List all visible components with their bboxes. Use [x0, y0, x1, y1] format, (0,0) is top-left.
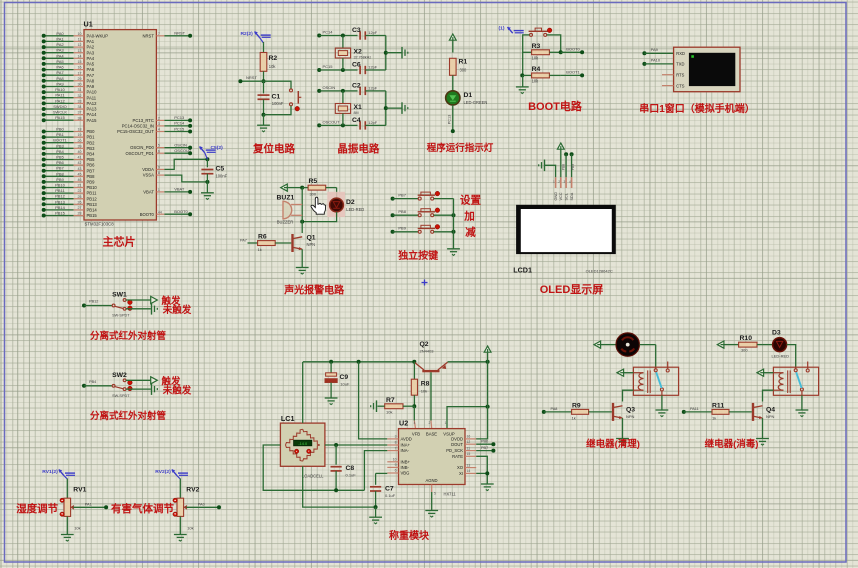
MCU pin PA5 (15): [42, 59, 95, 67]
LED D3 red: [772, 330, 790, 359]
MCU pin PA7 (17): [42, 70, 95, 78]
svg-text:NPN: NPN: [766, 414, 775, 419]
svg-text:PB15: PB15: [55, 211, 66, 216]
svg-text:湿度调节: 湿度调节: [16, 502, 58, 515]
power arrow D1: [449, 34, 456, 40]
svg-text:LCD1: LCD1: [513, 266, 532, 275]
label 称重模块: [389, 529, 430, 542]
svg-text:10: 10: [78, 32, 82, 36]
MCU pin PB1 (19): [42, 132, 95, 140]
wire X2 right rail: [384, 36, 402, 71]
probe (1): [499, 26, 524, 34]
wire bus to AVDD: [359, 362, 388, 439]
wire PD_SCK to PB7: [476, 446, 495, 453]
svg-text:VSSA: VSSA: [143, 173, 154, 178]
svg-text:U2: U2: [399, 419, 408, 428]
label 分离式红外对射管 1: [90, 330, 167, 342]
svg-text:11: 11: [467, 446, 471, 450]
svg-text:主芯片: 主芯片: [103, 235, 136, 249]
svg-text:PA8: PA8: [87, 78, 95, 83]
wire DOUT to PB6: [476, 440, 495, 447]
MCU pin VBAT (1): [143, 187, 192, 195]
node C5 top: [205, 157, 209, 167]
svg-text:12pF: 12pF: [368, 30, 377, 35]
OLED LCD1 module: [516, 205, 616, 254]
svg-text:BASE: BASE: [426, 432, 437, 437]
svg-text:8: 8: [158, 171, 160, 175]
svg-text:43: 43: [78, 167, 82, 171]
svg-text:AVDD: AVDD: [401, 437, 412, 442]
label BOOT电路: [528, 99, 583, 113]
svg-text:RV1(2): RV1(2): [42, 469, 58, 475]
svg-text:NRST: NRST: [246, 75, 257, 80]
label 设置: [460, 194, 481, 207]
svg-text:16: 16: [467, 435, 471, 439]
svg-text:D2: D2: [346, 199, 355, 206]
svg-text:DVDD: DVDD: [451, 437, 463, 442]
svg-text:21: 21: [78, 184, 82, 188]
svg-text:PB2: PB2: [87, 140, 96, 145]
svg-text:12: 12: [467, 440, 471, 444]
svg-text:C6: C6: [352, 62, 361, 69]
wire D3 to relay contact: [787, 345, 796, 368]
svg-text:10k: 10k: [532, 56, 540, 61]
wire Q1 emitter to ground: [301, 249, 303, 267]
resistor R10: [724, 335, 773, 353]
svg-text:PA5: PA5: [56, 59, 64, 64]
resistor R11: [682, 403, 752, 421]
wire crystal X1 nets: [317, 85, 357, 128]
probe R2(2): [241, 31, 271, 43]
label LCD1: [513, 266, 532, 275]
svg-text:PB15: PB15: [87, 213, 98, 218]
svg-text:LED-GREEN: LED-GREEN: [464, 100, 488, 105]
svg-text:R1: R1: [459, 59, 468, 66]
wire R5 to D2: [336, 188, 338, 199]
svg-text:未触发: 未触发: [162, 304, 192, 316]
virtual terminal serial window: [662, 47, 740, 91]
svg-text:PC14-OSC32_IN: PC14-OSC32_IN: [122, 124, 154, 129]
ground R7 side: [371, 400, 377, 412]
svg-text:R2(2): R2(2): [241, 31, 254, 37]
svg-text:18: 18: [78, 128, 82, 132]
MCU pin PA12 (33): [42, 98, 97, 106]
node PC13 end: [451, 129, 455, 133]
svg-text:Q1: Q1: [307, 235, 316, 242]
svg-text:PA1: PA1: [87, 39, 95, 44]
ground OLED GND pin: [539, 160, 545, 172]
svg-text:PC14: PC14: [174, 121, 185, 126]
capacitor C8: [331, 445, 357, 490]
svg-text:44: 44: [158, 210, 162, 214]
svg-text:14: 14: [78, 54, 82, 58]
node OLED SDA: [570, 152, 575, 177]
svg-text:LED-RED: LED-RED: [772, 354, 790, 359]
svg-text:PC15-OSC32_OUT: PC15-OSC32_OUT: [117, 129, 154, 134]
svg-text:继电器(清理): 继电器(清理): [586, 438, 640, 450]
resistor R9: [542, 403, 612, 421]
ground reset: [257, 115, 270, 132]
MCU pin PB8 (45): [42, 171, 95, 179]
svg-text:声光报警电路: 声光报警电路: [283, 284, 345, 297]
svg-text:SW2: SW2: [112, 372, 127, 379]
svg-text:VCC: VCC: [559, 192, 563, 200]
button key PB8: [391, 208, 456, 217]
svg-text:PA10: PA10: [55, 87, 65, 92]
svg-text:SDA: SDA: [570, 192, 574, 200]
crystal X1: [335, 91, 362, 126]
svg-text:VDDA: VDDA: [142, 167, 154, 172]
capacitor C1: [258, 81, 284, 115]
svg-text:RXD: RXD: [676, 51, 685, 56]
svg-text:19: 19: [78, 133, 82, 137]
power arrow HX711: [484, 346, 491, 352]
svg-text:10uF: 10uF: [340, 382, 350, 387]
wire probe to R2: [263, 42, 265, 43]
svg-text:46: 46: [78, 178, 82, 182]
svg-text:PD_SCK: PD_SCK: [446, 448, 463, 453]
wire motor to relay contact: [655, 345, 657, 368]
button key PB7: [391, 191, 454, 200]
svg-text:300: 300: [310, 192, 317, 197]
svg-text:29: 29: [78, 77, 82, 81]
svg-text:R8: R8: [421, 381, 430, 388]
label OLED显示屏: [540, 283, 604, 296]
svg-text:C3: C3: [352, 27, 361, 34]
svg-text:SW-SPDT: SW-SPDT: [112, 314, 130, 318]
svg-text:10k: 10k: [74, 526, 80, 531]
svg-text:BOOT1: BOOT1: [53, 138, 67, 143]
svg-text:RTS: RTS: [676, 72, 684, 77]
resistor R8: [411, 362, 429, 406]
relay RL2: [773, 362, 818, 396]
svg-text:PB8: PB8: [56, 171, 64, 176]
svg-text:10k: 10k: [386, 410, 392, 415]
svg-text:-14.0: -14.0: [298, 441, 308, 446]
svg-text:PA14: PA14: [87, 112, 98, 117]
resistor R6: [240, 234, 291, 253]
wire VSSA to C5 bottom: [164, 175, 207, 182]
MCU pin NRST (7): [142, 31, 192, 39]
svg-text:R11: R11: [712, 403, 724, 410]
MCU pin PC15-OSC32_OUT (4): [117, 126, 192, 134]
svg-text:R5: R5: [309, 178, 318, 185]
svg-text:Q3: Q3: [626, 407, 635, 414]
svg-text:INB+: INB+: [401, 459, 411, 464]
MCU pin PA15 (38): [42, 115, 97, 123]
svg-text:PB3: PB3: [87, 146, 96, 151]
svg-text:BOOT电路: BOOT电路: [528, 99, 583, 113]
svg-text:LOADCELL: LOADCELL: [302, 474, 324, 479]
svg-text:SW1: SW1: [112, 292, 127, 299]
svg-text:LC1: LC1: [281, 414, 295, 423]
svg-text:PA7: PA7: [87, 73, 95, 78]
svg-text:RV2(2): RV2(2): [155, 469, 171, 475]
svg-text:PA15: PA15: [87, 118, 98, 123]
svg-text:PB7: PB7: [398, 192, 406, 197]
svg-text:R10: R10: [740, 335, 753, 342]
svg-text:2N4403: 2N4403: [420, 349, 435, 354]
svg-text:PA13: PA13: [87, 107, 98, 112]
svg-text:26: 26: [78, 200, 82, 204]
OLED pin stubs GND VCC SCL SDA: [553, 177, 574, 200]
svg-text:称重模块: 称重模块: [389, 529, 430, 542]
svg-text:PA1: PA1: [56, 36, 64, 41]
svg-text:PB14: PB14: [55, 205, 66, 210]
MCU pin PC14-OSC32_IN (3): [122, 121, 192, 129]
svg-text:12: 12: [78, 43, 82, 47]
svg-text:PC14: PC14: [323, 30, 334, 35]
ground relay RL2: [796, 410, 809, 417]
wire RL1 pole to ground: [661, 395, 663, 410]
svg-text:10k: 10k: [269, 64, 277, 69]
svg-text:R6: R6: [258, 234, 267, 241]
label 继电器(消毒): [705, 438, 759, 450]
MCU pin PB3 (39): [42, 143, 95, 151]
svg-text:D3: D3: [772, 330, 781, 337]
label 触发 SW2: [160, 375, 181, 387]
svg-text:PA2: PA2: [56, 42, 64, 47]
MCU pin PB14 (27): [42, 205, 98, 213]
svg-text:有害气体调节: 有害气体调节: [111, 502, 174, 515]
ground X2 rail: [402, 47, 408, 59]
svg-text:PB12: PB12: [89, 300, 98, 304]
svg-text:PA3: PA3: [56, 48, 64, 53]
svg-text:INB-: INB-: [401, 465, 410, 470]
MCU pin PB5 (41): [42, 155, 95, 163]
wire D2 to bottom: [302, 212, 336, 222]
svg-text:0.1uF: 0.1uF: [385, 493, 396, 498]
svg-text:14: 14: [467, 469, 471, 473]
svg-text:17: 17: [78, 71, 82, 75]
capacitor C9: [325, 362, 350, 398]
svg-text:4: 4: [158, 128, 160, 132]
svg-text:PA9: PA9: [651, 47, 659, 52]
wire LC1 right to INA+: [325, 443, 387, 447]
svg-text:PB0: PB0: [56, 127, 64, 132]
svg-text:6: 6: [395, 469, 397, 473]
buzzer BUZ1: [277, 195, 303, 225]
svg-text:LED-RED: LED-RED: [346, 207, 364, 212]
MCU pin PB10 (21): [42, 183, 98, 191]
svg-text:31: 31: [78, 88, 82, 92]
svg-text:X2: X2: [354, 49, 363, 56]
wire crystal X2 nets: [317, 30, 357, 73]
svg-text:PA12: PA12: [87, 101, 98, 106]
svg-text:22: 22: [78, 189, 82, 193]
svg-text:37: 37: [78, 111, 82, 115]
svg-text:独立按键: 独立按键: [398, 249, 439, 262]
motor M1: [600, 333, 655, 356]
svg-text:PB8: PB8: [398, 209, 406, 214]
power arrow alarm: [281, 184, 288, 191]
label 加: [463, 210, 475, 223]
svg-text:PC15: PC15: [323, 64, 334, 69]
svg-text:Q2: Q2: [420, 341, 429, 348]
svg-text:10k: 10k: [532, 79, 540, 84]
svg-text:13: 13: [467, 463, 471, 467]
MCU pin PB9 (46): [42, 177, 95, 185]
capacitor C7: [370, 486, 396, 508]
ground C9: [325, 398, 338, 405]
svg-text:BOOT0: BOOT0: [174, 209, 188, 214]
svg-text:加: 加: [463, 210, 475, 223]
svg-text:R3: R3: [532, 43, 541, 50]
svg-text:VBAT: VBAT: [143, 190, 154, 195]
wire R3 to R4: [520, 50, 524, 77]
svg-text:PC13: PC13: [448, 115, 452, 125]
svg-text:PB7: PB7: [481, 446, 488, 450]
svg-text:HX711: HX711: [444, 492, 457, 497]
capacitor C2: [352, 82, 386, 95]
node C5 bottom: [205, 174, 209, 193]
svg-text:CTS: CTS: [676, 83, 684, 88]
label 减: [465, 226, 476, 239]
svg-text:PB6: PB6: [56, 160, 64, 165]
wire power to R5: [287, 186, 304, 190]
power arrow relay RL2 coil: [757, 369, 773, 376]
node NRST: [238, 75, 265, 83]
wire button left leg: [523, 35, 530, 50]
MCU pin PA4 (14): [42, 53, 95, 61]
svg-text:PA4: PA4: [87, 56, 95, 61]
svg-text:OSCIN: OSCIN: [323, 85, 336, 90]
svg-text:INA+: INA+: [401, 443, 411, 448]
wire button to bottom: [264, 106, 292, 115]
power arrow R10: [717, 341, 724, 348]
ground relay RL1: [656, 410, 669, 417]
svg-text:PA3: PA3: [87, 50, 95, 55]
svg-text:PA9: PA9: [56, 82, 64, 87]
net PA9 to RXD: [642, 47, 673, 55]
label 程序运行指示灯: [427, 142, 494, 154]
svg-text:9: 9: [158, 166, 160, 170]
svg-text:PB6: PB6: [87, 163, 96, 168]
svg-text:300: 300: [741, 348, 748, 353]
wire button right leg: [547, 35, 561, 52]
button BOOT: [529, 28, 552, 36]
svg-text:PB7: PB7: [56, 166, 64, 171]
svg-text:PB8: PB8: [87, 174, 96, 179]
button reset: [290, 89, 302, 111]
svg-text:41: 41: [78, 156, 82, 160]
svg-text:12pF: 12pF: [368, 120, 377, 125]
svg-text:TXD: TXD: [676, 62, 684, 67]
svg-text:PA7: PA7: [56, 70, 64, 75]
svg-text:PA8: PA8: [551, 407, 558, 411]
svg-text:28: 28: [78, 212, 82, 216]
svg-text:C8: C8: [346, 465, 355, 472]
wire VSUP top bus: [448, 360, 490, 364]
wire OLED GND: [545, 165, 556, 177]
svg-text:VBAT: VBAT: [174, 187, 185, 192]
svg-text:5: 5: [434, 492, 436, 496]
wire RL2 pole to ground: [801, 395, 803, 410]
MCU pin PB6 (42): [42, 160, 95, 168]
node OLED SCL: [561, 152, 568, 177]
svg-text:7: 7: [158, 32, 160, 36]
svg-text:OSCIN_PD0: OSCIN_PD0: [130, 145, 154, 150]
resistor R4: [523, 66, 561, 84]
wire AVDD top bus: [303, 360, 416, 364]
svg-text:NRST: NRST: [174, 31, 185, 36]
svg-text:3: 3: [158, 122, 160, 126]
wire alarm vertical bus: [301, 188, 303, 233]
MCU pin OSCIN_PD0 (5): [130, 142, 192, 150]
svg-text:BUZ1: BUZ1: [277, 195, 295, 202]
svg-text:SCL: SCL: [564, 193, 568, 200]
svg-text:8M: 8M: [354, 111, 359, 115]
MCU pin PB2 (20): [42, 138, 95, 146]
svg-text:C2: C2: [352, 82, 361, 89]
potentiometer RV1: [16, 469, 108, 541]
MCU pin PA2 (12): [42, 42, 95, 50]
svg-text:12pF: 12pF: [368, 65, 377, 70]
wire RL2 coil to Q4: [763, 390, 774, 401]
svg-text:SW-SPDT: SW-SPDT: [112, 394, 130, 398]
svg-text:C1: C1: [272, 94, 281, 101]
svg-text:PA1: PA1: [85, 503, 92, 507]
svg-text:PA10: PA10: [651, 58, 661, 63]
svg-text:27: 27: [78, 206, 82, 210]
svg-text:C4: C4: [352, 117, 361, 124]
svg-text:12pF: 12pF: [368, 86, 377, 91]
capacitor C5: [201, 165, 227, 178]
svg-text:(1): (1): [499, 26, 505, 32]
label 未触发 SW2: [162, 384, 192, 396]
svg-text:PA9: PA9: [87, 84, 95, 89]
svg-text:PA0: PA0: [198, 503, 205, 507]
svg-text:PA2: PA2: [87, 45, 95, 50]
svg-text:15: 15: [467, 452, 471, 456]
svg-text:3: 3: [564, 180, 566, 184]
svg-text:INA-: INA-: [401, 448, 410, 453]
svg-text:39: 39: [78, 144, 82, 148]
svg-text:PA11: PA11: [55, 93, 65, 98]
MCU pin PB13 (26): [42, 199, 98, 207]
wire LC1 bottom to ground rail: [303, 466, 378, 509]
svg-text:PA0: PA0: [56, 31, 64, 36]
svg-text:VFB: VFB: [412, 432, 420, 437]
svg-text:2: 2: [158, 117, 160, 121]
svg-text:PB8: PB8: [561, 164, 565, 171]
svg-text:SWCLK: SWCLK: [53, 110, 68, 115]
svg-text:X1: X1: [354, 104, 363, 111]
ground keys: [447, 249, 460, 256]
transistor Q3: [612, 403, 635, 421]
wire LC1 left loop to INA-: [263, 445, 387, 492]
svg-text:GND: GND: [554, 192, 558, 201]
svg-text:PB1: PB1: [87, 135, 96, 140]
MCU pin PB12 (25): [42, 194, 98, 202]
svg-text:PA7: PA7: [240, 239, 247, 243]
svg-text:8: 8: [395, 441, 397, 445]
svg-text:C9: C9: [340, 374, 349, 381]
svg-text:VBG: VBG: [401, 471, 410, 476]
svg-text:6: 6: [158, 149, 160, 153]
svg-text:PB9: PB9: [571, 164, 575, 171]
svg-text:R2: R2: [269, 55, 278, 62]
svg-text:PB7: PB7: [87, 168, 96, 173]
svg-text:复位电路: 复位电路: [252, 142, 295, 155]
svg-text:C5: C5: [216, 165, 225, 172]
svg-text:1k: 1k: [712, 416, 716, 421]
ground X1 rail: [402, 102, 408, 114]
MCU pin PA1 (11): [42, 36, 95, 44]
power arrow OLED VCC: [557, 143, 564, 177]
svg-text:RATE: RATE: [452, 454, 463, 459]
node R7 R8 junction: [412, 404, 416, 428]
